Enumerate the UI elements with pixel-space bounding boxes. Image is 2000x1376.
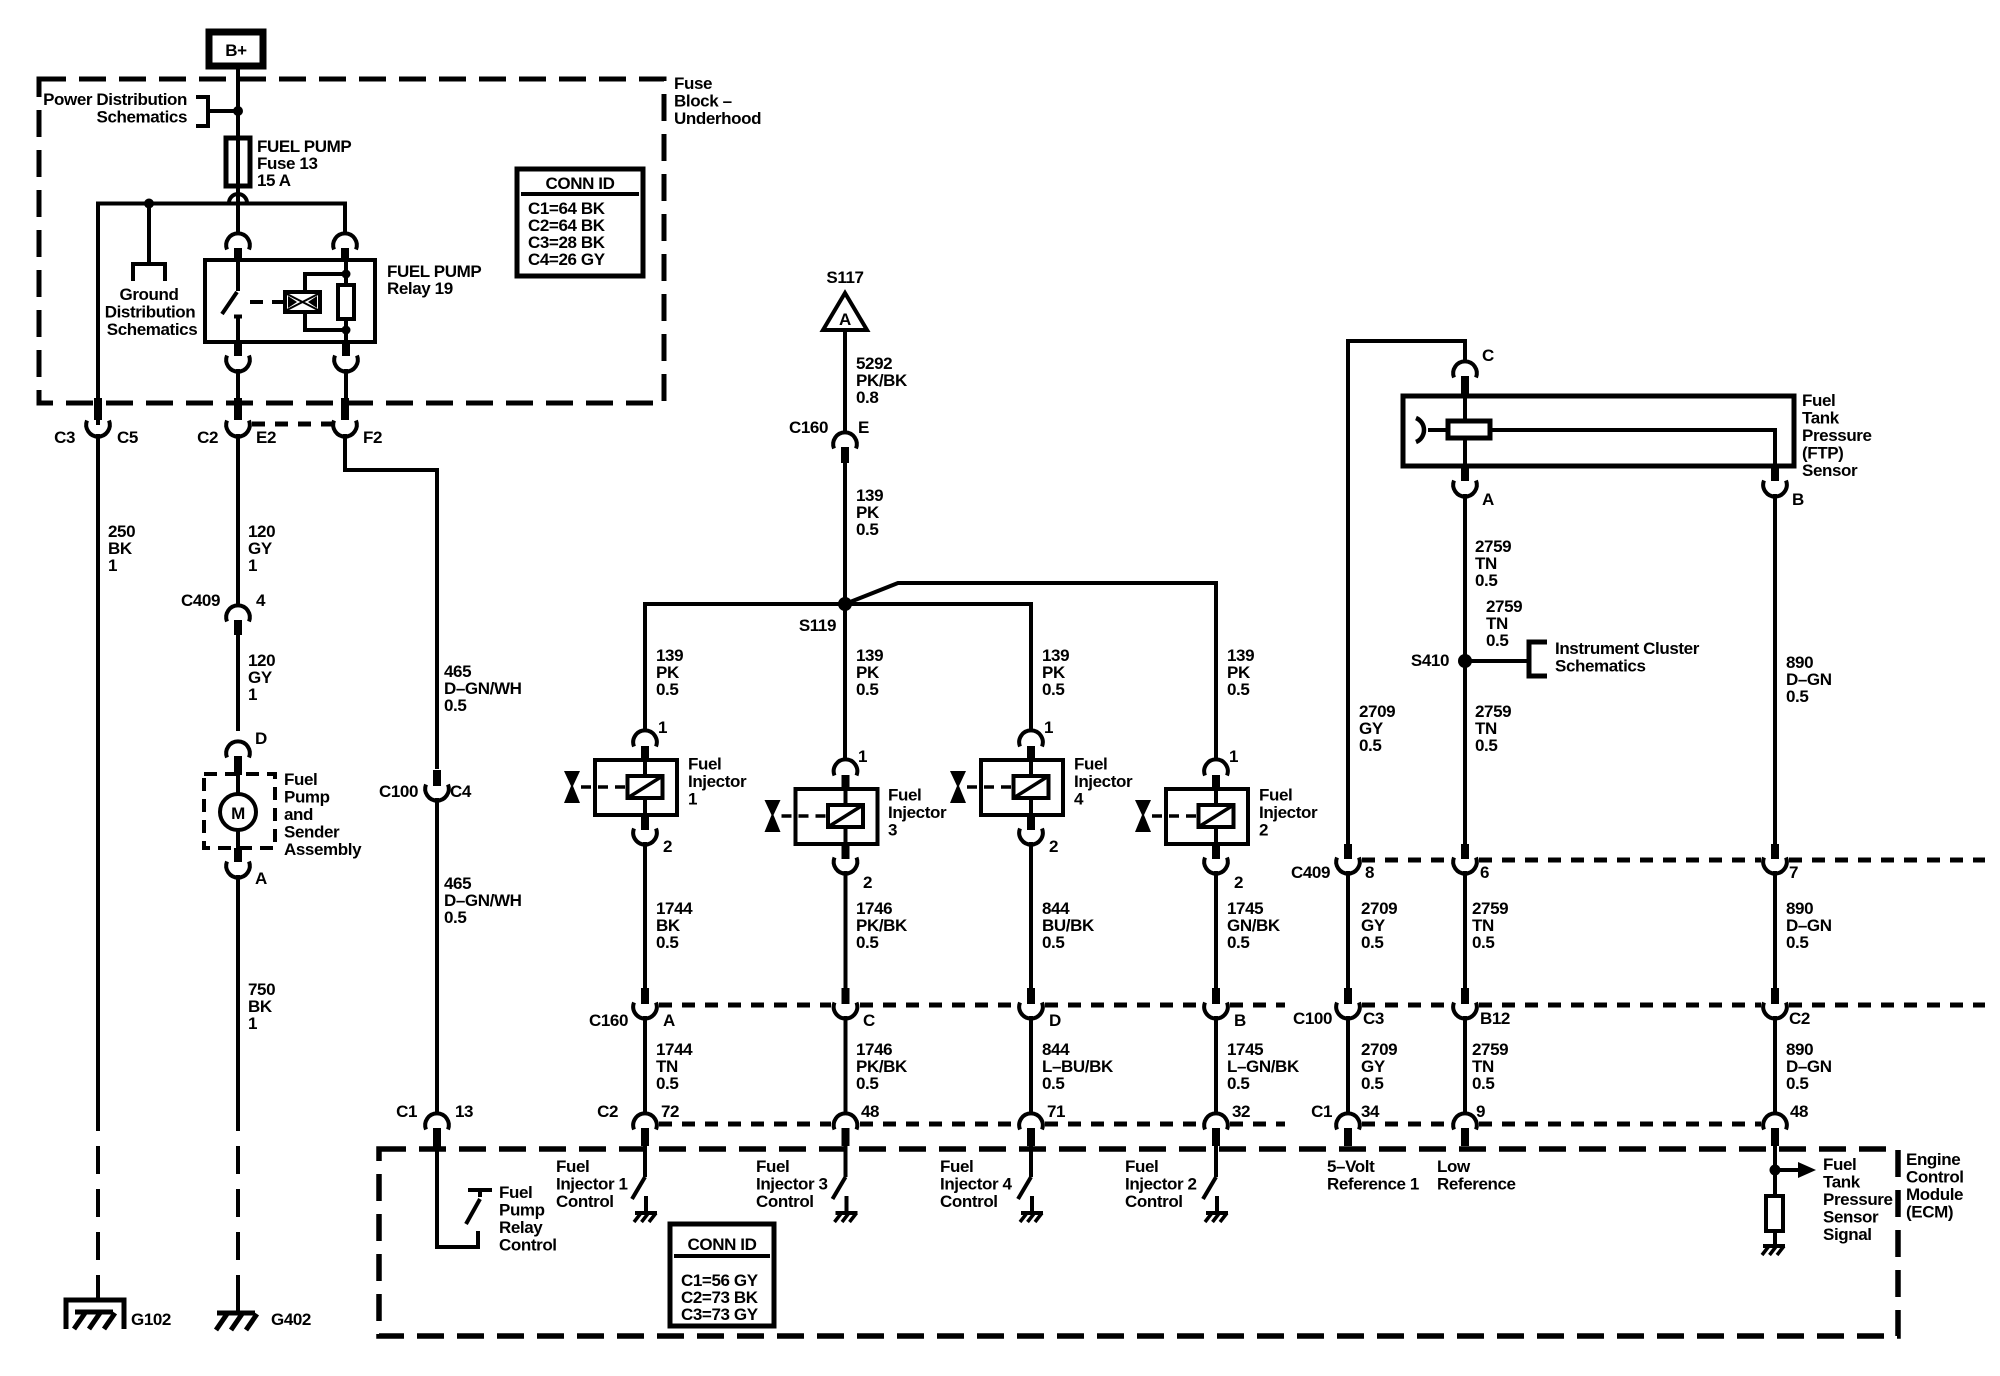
- svg-text:0.5: 0.5: [444, 908, 466, 927]
- wire 2759 TN upper: [1465, 494, 1522, 661]
- wire dashed connector row C2: [659, 1122, 1285, 1127]
- wire C100 to C1 465 D-GN/WH: [437, 798, 522, 1114]
- pin labels fuel injector 1: [658, 718, 747, 856]
- svg-text:Fuel: Fuel: [284, 770, 317, 789]
- svg-text:1: 1: [248, 1014, 257, 1033]
- fuel injector 3: [765, 759, 878, 873]
- svg-text:0.5: 0.5: [1042, 1074, 1064, 1093]
- svg-text:C409: C409: [1291, 863, 1330, 882]
- svg-text:C3=73 GY: C3=73 GY: [681, 1305, 759, 1324]
- svg-text:0.5: 0.5: [1786, 933, 1808, 952]
- wire dashed connector row C409 right: [1362, 858, 1985, 863]
- svg-text:S119: S119: [799, 616, 836, 635]
- svg-text:2: 2: [1049, 837, 1058, 856]
- wire 1746 PK/BK to ECM: [846, 1016, 909, 1114]
- wire label 139 PK injector 3: [856, 646, 883, 699]
- connector arc relay pin 85: [333, 233, 357, 261]
- switch fuel pump relay control driver: [466, 1183, 557, 1255]
- svg-text:0.5: 0.5: [1472, 933, 1494, 952]
- wire bus to ground distribution bracket: [147, 204, 151, 265]
- svg-text:1: 1: [1044, 718, 1053, 737]
- svg-text:0.5: 0.5: [1227, 1074, 1249, 1093]
- svg-text:Fuel: Fuel: [1125, 1157, 1158, 1176]
- svg-text:C1: C1: [1311, 1102, 1332, 1121]
- FTP signal input network: [1770, 1146, 1893, 1244]
- svg-text:71: 71: [1047, 1102, 1065, 1121]
- driver switch fuel injector 1 control: [556, 1146, 657, 1222]
- svg-text:0.5: 0.5: [856, 520, 878, 539]
- svg-text:C: C: [863, 1011, 875, 1030]
- svg-text:Fuse: Fuse: [674, 74, 712, 93]
- svg-text:E: E: [858, 418, 869, 437]
- svg-text:Sender: Sender: [284, 823, 340, 842]
- svg-text:M: M: [231, 804, 245, 823]
- off-page bracket Ground Distribution Schematics: [105, 264, 198, 339]
- svg-text:Pump: Pump: [284, 788, 330, 807]
- svg-text:Fuel: Fuel: [1259, 786, 1292, 805]
- pin labels fuel injector 4: [1044, 718, 1133, 856]
- svg-text:E2: E2: [256, 428, 276, 447]
- connector C160 pin E: [789, 418, 869, 463]
- wire 1744 TN to ECM: [645, 1016, 693, 1114]
- svg-text:A: A: [839, 310, 851, 329]
- injector symbol template uses: fuel injector 1: [564, 730, 677, 844]
- svg-text:C1: C1: [396, 1102, 417, 1121]
- svg-text:Pump: Pump: [499, 1201, 545, 1220]
- driver switch fuel injector 3 control: [756, 1146, 858, 1222]
- svg-text:Fuel: Fuel: [499, 1183, 532, 1202]
- svg-text:C2: C2: [597, 1102, 618, 1121]
- wire injector 1 pin2 down 1744 BK: [645, 842, 693, 988]
- node junction on B+ wire: [233, 106, 243, 116]
- svg-text:and: and: [284, 805, 313, 824]
- svg-text:1: 1: [108, 556, 117, 575]
- svg-text:Injector: Injector: [1259, 803, 1318, 822]
- svg-text:0.8: 0.8: [856, 388, 878, 407]
- svg-text:C160: C160: [789, 418, 828, 437]
- wire FTP harness top run: [1348, 341, 1465, 844]
- svg-text:0.5: 0.5: [856, 680, 878, 699]
- svg-text:72: 72: [661, 1102, 679, 1121]
- connector C1 pin 13: [396, 1102, 473, 1147]
- svg-text:Fuel: Fuel: [1802, 391, 1835, 410]
- svg-text:C2: C2: [1789, 1009, 1810, 1028]
- svg-text:1: 1: [1229, 747, 1238, 766]
- svg-text:0.5: 0.5: [656, 1074, 678, 1093]
- svg-text:0.5: 0.5: [1361, 933, 1383, 952]
- svg-text:Injector 2: Injector 2: [1125, 1175, 1197, 1194]
- connector FTP pin A: [1453, 466, 1494, 509]
- svg-text:Schematics: Schematics: [1555, 657, 1646, 676]
- svg-text:G402: G402: [271, 1310, 311, 1329]
- svg-text:2: 2: [1234, 873, 1243, 892]
- svg-text:2: 2: [663, 837, 672, 856]
- svg-text:B: B: [1234, 1011, 1246, 1030]
- svg-text:Control: Control: [756, 1192, 814, 1211]
- wire 890 D-GN upper: [1775, 494, 1832, 844]
- svg-text:1: 1: [658, 718, 667, 737]
- connector FTP pin B: [1763, 466, 1804, 509]
- svg-text:C: C: [1482, 346, 1494, 365]
- svg-text:B+: B+: [225, 41, 247, 60]
- svg-text:Relay 19: Relay 19: [387, 279, 453, 298]
- svg-text:Fuel: Fuel: [556, 1157, 589, 1176]
- wire S119 to injector 1: [645, 604, 845, 731]
- wire 1745 L-GN/BK to ECM: [1216, 1016, 1300, 1114]
- driver switch fuel injector 2 control: [1125, 1146, 1228, 1222]
- svg-text:(ECM): (ECM): [1906, 1203, 1953, 1222]
- wire B+ to fuse: [236, 69, 240, 234]
- relay coil: [285, 292, 320, 312]
- svg-text:Control: Control: [499, 1236, 557, 1255]
- svg-text:Tank: Tank: [1823, 1173, 1861, 1192]
- wire dashed connector row E2 to F2: [252, 422, 332, 427]
- fuel injector 4: [950, 730, 1063, 844]
- wire 2709 GY mid: [1348, 871, 1397, 988]
- wire coil top to right pin: [305, 274, 346, 292]
- wire 2709 GY label: [1359, 702, 1395, 755]
- wire injector 3 pin2 down 1746 PK/BK: [846, 871, 909, 988]
- svg-text:34: 34: [1361, 1102, 1380, 1121]
- svg-text:D: D: [1049, 1011, 1061, 1030]
- fuse F13 FUEL PUMP Fuse 13 15A: [226, 137, 351, 190]
- connector relay bottom right pin 86: [334, 342, 358, 372]
- svg-text:Pressure: Pressure: [1802, 426, 1872, 445]
- svg-text:A: A: [663, 1011, 675, 1030]
- wire injector 2 pin2 down 1745 GN/BK: [1216, 871, 1281, 988]
- svg-text:8: 8: [1365, 863, 1374, 882]
- wire 2759 TN to C409: [1465, 661, 1511, 844]
- svg-text:Sensor: Sensor: [1823, 1208, 1879, 1227]
- svg-text:B: B: [1792, 490, 1804, 509]
- svg-text:0.5: 0.5: [1359, 736, 1381, 755]
- svg-text:Schematics: Schematics: [97, 108, 188, 127]
- svg-text:7: 7: [1789, 863, 1798, 882]
- svg-text:Signal: Signal: [1823, 1225, 1872, 1244]
- svg-text:B12: B12: [1480, 1009, 1510, 1028]
- connector C2 pin 48: [834, 1102, 879, 1146]
- svg-text:A: A: [255, 869, 267, 888]
- connector C100 pin C3: [1293, 988, 1384, 1028]
- svg-text:32: 32: [1232, 1102, 1250, 1121]
- connector C409 pin 7: [1763, 844, 1798, 882]
- svg-text:Fuel: Fuel: [888, 786, 921, 805]
- svg-text:G102: G102: [131, 1310, 171, 1329]
- svg-text:Ground: Ground: [120, 285, 179, 304]
- svg-text:0.5: 0.5: [1486, 631, 1508, 650]
- connector C1 pin 34: [1311, 1102, 1380, 1146]
- svg-text:0.5: 0.5: [656, 680, 678, 699]
- svg-text:S410: S410: [1411, 651, 1449, 670]
- svg-text:Control: Control: [1906, 1168, 1964, 1187]
- svg-text:Injector: Injector: [1074, 772, 1133, 791]
- svg-text:Control: Control: [940, 1192, 998, 1211]
- svg-text:Assembly: Assembly: [284, 840, 362, 859]
- ground internal ECM: [1762, 1246, 1785, 1255]
- svg-text:D: D: [255, 729, 267, 748]
- svg-text:0.5: 0.5: [856, 1074, 878, 1093]
- svg-text:Engine: Engine: [1906, 1150, 1960, 1169]
- wire 890 D-GN lower: [1775, 1016, 1832, 1114]
- wire 2709 GY lower: [1348, 1016, 1397, 1114]
- svg-text:0.5: 0.5: [1042, 933, 1064, 952]
- svg-text:4: 4: [1074, 790, 1084, 809]
- svg-text:Distribution: Distribution: [105, 303, 196, 322]
- svg-text:C100: C100: [1293, 1009, 1332, 1028]
- svg-text:0.5: 0.5: [1472, 1074, 1494, 1093]
- connector C1 pin 9: [1453, 1102, 1485, 1146]
- wire 250 BK left column: [98, 434, 135, 1300]
- svg-text:Control: Control: [556, 1192, 614, 1211]
- wire 890 D-GN mid: [1775, 871, 1832, 988]
- svg-text:5–Volt: 5–Volt: [1327, 1157, 1375, 1176]
- svg-text:0.5: 0.5: [1361, 1074, 1383, 1093]
- node junction coil top: [342, 270, 351, 279]
- fuel tank pressure sensor box: [1403, 391, 1872, 480]
- table CONN ID fuse block: [517, 169, 643, 276]
- svg-text:C3: C3: [54, 428, 75, 447]
- svg-text:0.5: 0.5: [856, 933, 878, 952]
- node junction bus to ground distribution: [144, 199, 154, 209]
- svg-text:Block –: Block –: [674, 92, 732, 111]
- wire 120 GY lower: [238, 635, 275, 731]
- motor M fuel pump: [220, 775, 256, 848]
- connector C3/C5 fuse block bottom: [54, 398, 138, 447]
- connector C1 pin 48: [1763, 1102, 1808, 1146]
- pin labels fuel injector 2: [1229, 747, 1318, 892]
- wire relay pin86 down to fuse block edge: [344, 369, 348, 404]
- wire injector 4 pin2 down 844 BU/BK: [1031, 842, 1095, 988]
- wire bus horizontal: [98, 204, 345, 426]
- svg-text:Fuel: Fuel: [940, 1157, 973, 1176]
- wire 844 L-BU/BK to ECM: [1031, 1016, 1114, 1114]
- wire dashed connector row C100 right: [1362, 1003, 1985, 1008]
- node junction coil bottom: [342, 326, 351, 335]
- wire 750 BK: [238, 875, 275, 1312]
- wire dashed connector row C160: [659, 1003, 1285, 1008]
- svg-text:13: 13: [455, 1102, 473, 1121]
- off-page bracket Instrument Cluster Schematics: [1465, 639, 1700, 676]
- svg-text:Fuel: Fuel: [688, 755, 721, 774]
- svg-text:(FTP): (FTP): [1802, 444, 1843, 463]
- wire C1 pin13 into ECM: [437, 1147, 478, 1247]
- wire 5292 PK/BK 0.8: [845, 330, 908, 433]
- relay switch contact: [222, 260, 242, 342]
- wire 120 GY upper: [238, 434, 275, 606]
- table CONN ID ECM: [670, 1224, 774, 1326]
- connector arc relay pin 30: [226, 233, 250, 261]
- wire S119 to injector 4: [845, 604, 1031, 731]
- svg-text:C160: C160: [589, 1011, 628, 1030]
- wire 139 PK trunk: [845, 463, 883, 604]
- svg-text:Low: Low: [1437, 1157, 1471, 1176]
- svg-text:C4=26 GY: C4=26 GY: [528, 250, 606, 269]
- ground G102: [66, 1300, 171, 1329]
- fuse block dashed border Fuse Block - Underhood: [39, 79, 664, 403]
- wire dashed connector row C1 right: [1362, 1122, 1761, 1127]
- FTP sensor internals: [1416, 396, 1775, 466]
- svg-text:0.5: 0.5: [1227, 680, 1249, 699]
- fuel injector 2: [1135, 759, 1248, 873]
- svg-text:1: 1: [248, 556, 257, 575]
- svg-text:0.5: 0.5: [1786, 1074, 1808, 1093]
- ECM dashed border Engine Control Module: [379, 1149, 1964, 1336]
- connector fuel pump pin A: [226, 848, 267, 888]
- connector C160 pin B: [1204, 988, 1246, 1030]
- svg-text:Fuel: Fuel: [1074, 755, 1107, 774]
- connector fuel pump pin D: [226, 729, 267, 775]
- svg-text:S117: S117: [826, 268, 863, 287]
- svg-text:6: 6: [1480, 863, 1489, 882]
- svg-text:Module: Module: [1906, 1185, 1963, 1204]
- svg-text:0.5: 0.5: [1227, 933, 1249, 952]
- svg-text:Injector 1: Injector 1: [556, 1175, 628, 1194]
- svg-text:Power Distribution: Power Distribution: [43, 90, 187, 109]
- wire fuse bus down to relay left pin: [236, 204, 240, 235]
- connector F2 fuse block bottom: [333, 398, 382, 447]
- svg-text:1: 1: [248, 685, 257, 704]
- svg-text:Schematics: Schematics: [107, 320, 198, 339]
- svg-text:1: 1: [688, 790, 697, 809]
- svg-text:3: 3: [888, 821, 897, 840]
- connector C100 pin C4: [379, 770, 472, 801]
- svg-text:C409: C409: [181, 591, 220, 610]
- svg-text:CONN ID: CONN ID: [688, 1235, 757, 1254]
- connector C409 pin 4: [181, 591, 266, 635]
- wire F2 to C100 465 D-GN/WH: [345, 434, 522, 769]
- svg-text:0.5: 0.5: [1475, 571, 1497, 590]
- svg-text:C2: C2: [197, 428, 218, 447]
- svg-text:Fuel: Fuel: [1823, 1155, 1856, 1174]
- driver switch fuel injector 4 control: [940, 1146, 1043, 1222]
- svg-text:A: A: [1482, 490, 1494, 509]
- svg-text:48: 48: [861, 1102, 879, 1121]
- svg-text:4: 4: [256, 591, 266, 610]
- svg-text:Reference: Reference: [1437, 1175, 1516, 1194]
- connector C100 pin C2: [1763, 988, 1810, 1028]
- wire S119 to injector 2: [845, 583, 1216, 760]
- terminal arc fuse to bus: [229, 194, 247, 203]
- svg-text:Pressure: Pressure: [1823, 1190, 1893, 1209]
- svg-text:Relay: Relay: [499, 1218, 543, 1237]
- svg-text:0.5: 0.5: [656, 933, 678, 952]
- svg-text:0.5: 0.5: [444, 696, 466, 715]
- connector relay bottom left pin 87: [226, 342, 250, 372]
- svg-text:0.5: 0.5: [1042, 680, 1064, 699]
- svg-text:Underhood: Underhood: [674, 109, 761, 128]
- svg-text:C100: C100: [379, 782, 418, 801]
- connector C2/E2 fuse block bottom: [197, 398, 276, 447]
- svg-text:Sensor: Sensor: [1802, 461, 1858, 480]
- ground G402: [216, 1310, 311, 1330]
- svg-text:Control: Control: [1125, 1192, 1183, 1211]
- connector C160 pin A: [589, 988, 675, 1030]
- wire S119 to injector 3: [843, 604, 847, 760]
- svg-text:Fuel: Fuel: [756, 1157, 789, 1176]
- connector C2 pin 72: [597, 1102, 679, 1146]
- svg-text:0.5: 0.5: [1786, 687, 1808, 706]
- svg-text:CONN ID: CONN ID: [546, 174, 615, 193]
- wire 2759 TN lower: [1465, 1016, 1508, 1114]
- connector C409 pin 8: [1291, 844, 1374, 882]
- pin labels fuel injector 3: [858, 747, 947, 892]
- battery feed B+ box: [209, 32, 263, 66]
- connector C2 pin 32: [1204, 1102, 1250, 1146]
- svg-text:C4: C4: [450, 782, 472, 801]
- node splice S410: [1411, 651, 1472, 670]
- svg-text:Injector 3: Injector 3: [756, 1175, 828, 1194]
- relay mechanical link dashes: [250, 300, 285, 304]
- svg-text:C3: C3: [1363, 1009, 1384, 1028]
- svg-text:0.5: 0.5: [1475, 736, 1497, 755]
- svg-text:F2: F2: [363, 428, 382, 447]
- svg-text:2: 2: [863, 873, 872, 892]
- svg-text:Injector: Injector: [688, 772, 747, 791]
- relay internal resistor: [338, 260, 354, 342]
- label Low Reference: [1437, 1157, 1516, 1194]
- svg-text:Injector: Injector: [888, 803, 947, 822]
- svg-text:2: 2: [1259, 821, 1268, 840]
- wire relay pin87 down to fuse block edge: [236, 369, 240, 404]
- resistor pull in ECM: [1766, 1196, 1783, 1246]
- wire label 139 PK injector 2: [1227, 646, 1254, 699]
- connector C2 pin 71: [1019, 1102, 1065, 1146]
- label 5-Volt Reference 1: [1327, 1157, 1419, 1194]
- relay K19 FUEL PUMP Relay 19: [205, 260, 481, 342]
- svg-text:C5: C5: [117, 428, 138, 447]
- connector C409 pin 6: [1453, 844, 1489, 882]
- svg-text:Instrument Cluster: Instrument Cluster: [1555, 639, 1700, 658]
- svg-text:9: 9: [1476, 1102, 1485, 1121]
- wire 2759 TN mid: [1465, 871, 1508, 988]
- svg-text:48: 48: [1790, 1102, 1808, 1121]
- connector C160 pin D: [1019, 988, 1061, 1030]
- wire coil bottom to right pin: [305, 312, 346, 330]
- connector C100 pin B12: [1453, 988, 1510, 1028]
- svg-text:Reference 1: Reference 1: [1327, 1175, 1419, 1194]
- connector C160 pin C: [834, 988, 875, 1030]
- wire label 139 PK injector 4: [1042, 646, 1069, 699]
- fuel pump and sender assembly dashed box: [204, 770, 362, 859]
- svg-text:1: 1: [858, 747, 867, 766]
- off-page bracket Power Distribution Schematics: [43, 90, 234, 127]
- svg-text:Tank: Tank: [1802, 409, 1840, 428]
- splice S117 triangle A: [823, 268, 867, 330]
- connector FTP pin C: [1453, 346, 1494, 396]
- node splice S119: [799, 597, 852, 635]
- svg-text:Injector 4: Injector 4: [940, 1175, 1013, 1194]
- svg-text:15 A: 15 A: [257, 171, 291, 190]
- wire label 139 PK injector 1: [656, 646, 683, 699]
